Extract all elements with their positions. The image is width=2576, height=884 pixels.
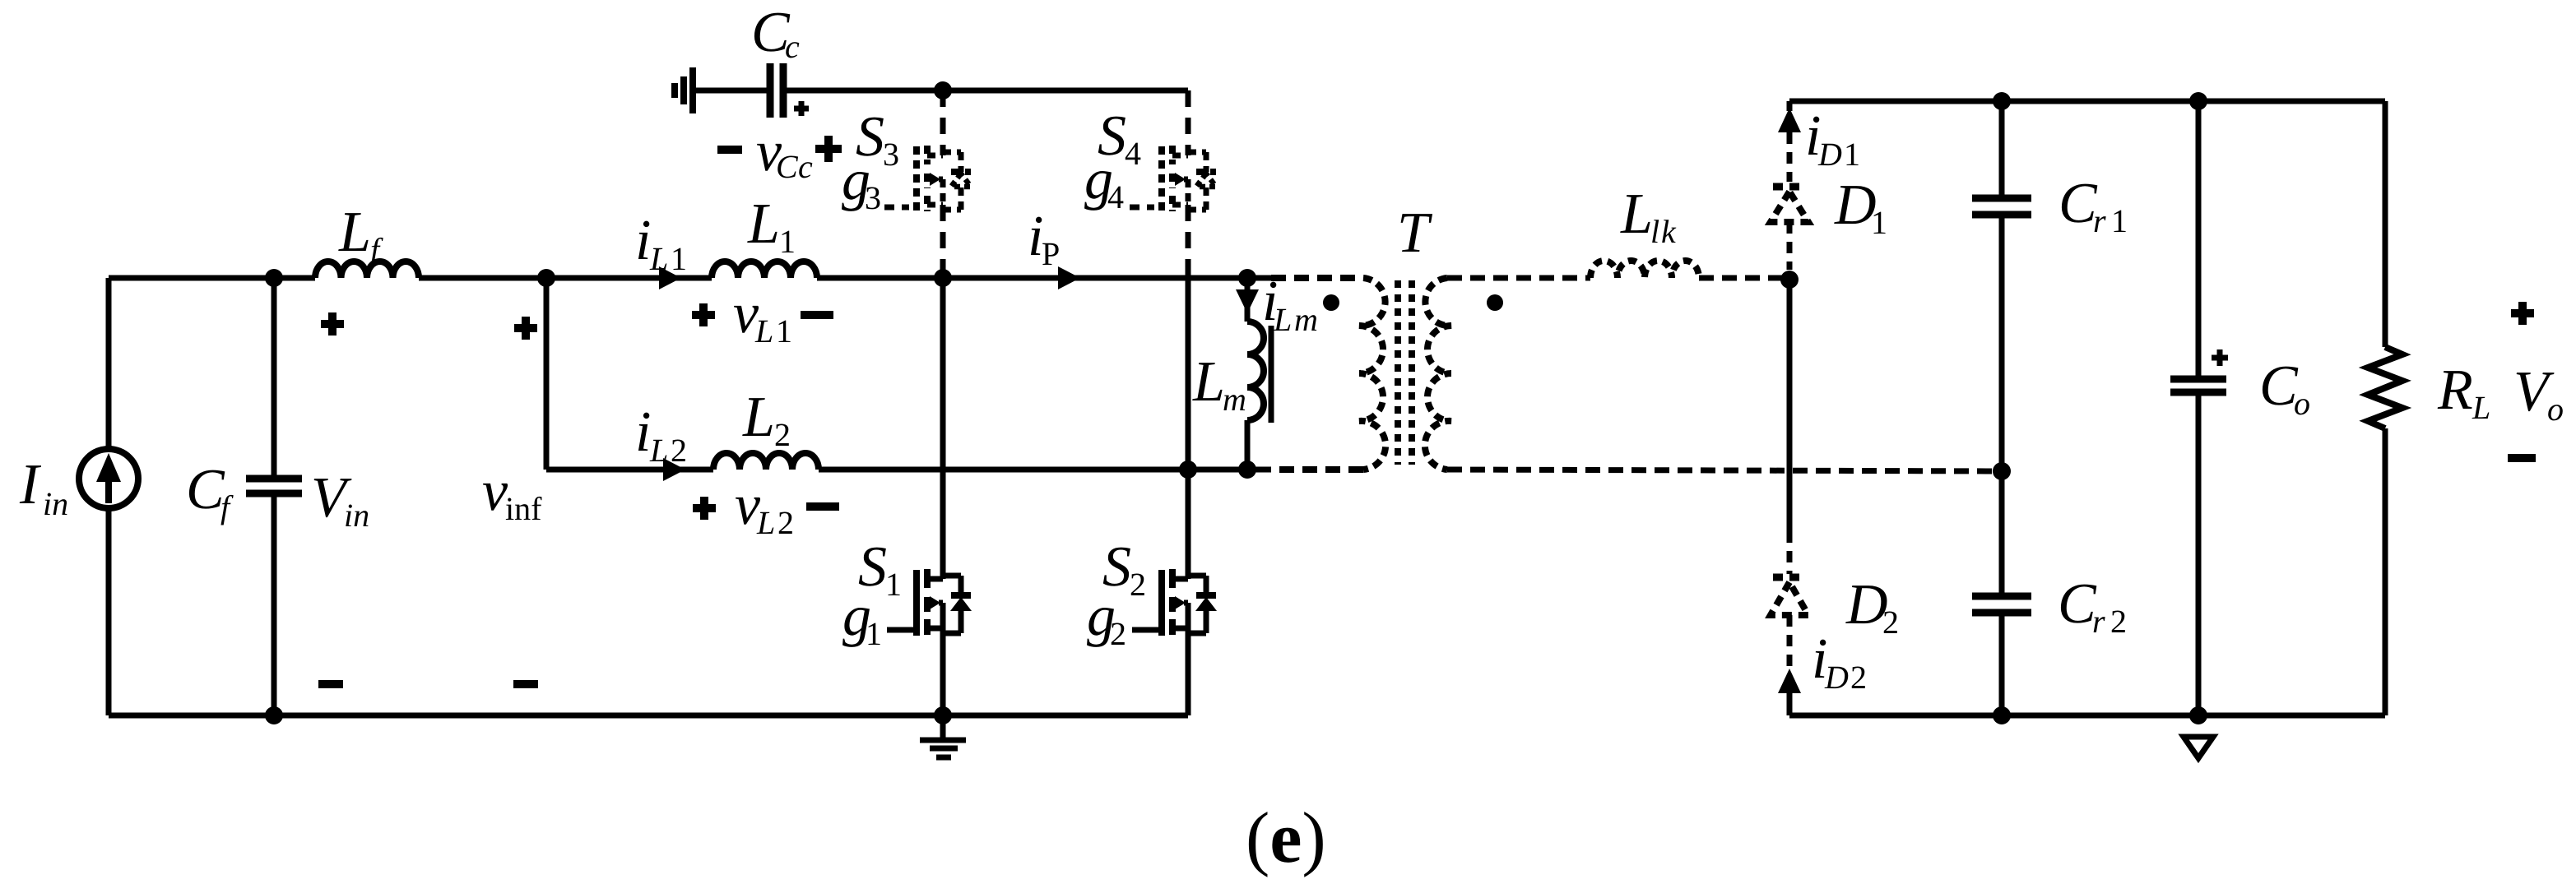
node: row1/Lm junction [1238, 269, 1256, 287]
label v_inf [482, 460, 542, 527]
svg-text:C: C [776, 148, 799, 185]
svg-text:L: L [649, 240, 668, 277]
svg-text:r: r [2093, 202, 2106, 239]
wire: bottom rail left [109, 713, 1188, 719]
node: row2/S2 junction [1179, 461, 1197, 479]
svg-text:(e): (e) [1246, 798, 1326, 878]
node vinf junction [537, 269, 555, 287]
svg-text:I: I [19, 453, 42, 516]
svg-text:L: L [756, 504, 775, 541]
svg-text:R: R [2437, 359, 2473, 422]
wire: D column dashed to D2 [1787, 531, 1793, 574]
node: top rail / Co [2189, 92, 2207, 110]
svg-text:r: r [2092, 603, 2105, 640]
svg-text:m: m [1294, 301, 1318, 338]
current arrow i_D2 [1778, 627, 1867, 715]
svg-text:L: L [747, 192, 780, 256]
svg-text:1: 1 [885, 566, 902, 603]
capacitor C_o [2170, 101, 2310, 715]
label T [1397, 201, 1433, 265]
svg-text:in: in [43, 485, 68, 522]
svg-text:3: 3 [865, 179, 881, 216]
svg-text:L: L [2472, 389, 2490, 426]
svg-text:D: D [1845, 573, 1888, 636]
current arrow i_L1 [635, 209, 687, 289]
wire: S1 source to bottom [940, 628, 946, 715]
inductor L2 [713, 386, 819, 470]
node: top rail / Cr1 [1993, 92, 2011, 110]
capacitor C_f [186, 278, 302, 724]
transistor S3 [856, 105, 971, 212]
polarity - (Vin bottom) [318, 680, 343, 688]
svg-text:c: c [785, 28, 800, 65]
svg-text:c: c [798, 148, 813, 185]
svg-text:4: 4 [1107, 178, 1124, 215]
capacitor C_r1 [1972, 101, 2128, 593]
svg-text:L: L [649, 432, 668, 469]
label g4 [1084, 148, 1154, 215]
svg-text:3: 3 [883, 136, 899, 173]
label g2 [1087, 585, 1162, 652]
inductor L1 [712, 192, 817, 278]
svg-text:1: 1 [2111, 202, 2128, 239]
svg-text:1: 1 [1871, 204, 1887, 241]
svg-text:2: 2 [1850, 659, 1867, 696]
node: bottom/ground junction [934, 706, 952, 724]
svg-text:f: f [220, 488, 234, 525]
svg-text:D: D [1834, 174, 1877, 237]
wire: secondary bottom (dashed) [1447, 470, 2002, 471]
label - v_Cc + [717, 120, 842, 185]
svg-text:k: k [1661, 213, 1677, 250]
wire: S4 drain (dashed) [1186, 90, 1191, 155]
wire: S1 drain vertical [940, 278, 946, 579]
svg-text:D: D [1817, 136, 1842, 173]
svg-text:L: L [754, 312, 773, 349]
transistor S2 [1102, 535, 1217, 636]
svg-text:o: o [2294, 385, 2310, 422]
wire: S3 drain (dashed) [940, 90, 946, 155]
wire: S2/S4 column solid [1186, 271, 1191, 579]
current arrow i_D1 [1778, 101, 1860, 182]
current arrow i_L2 [635, 400, 687, 481]
wire: secondary top (dashed) [1447, 275, 1590, 281]
node: Cc/S3 junction [934, 81, 952, 100]
label g3 [842, 149, 909, 216]
polarity + v_L1 - [692, 282, 833, 349]
svg-text:P: P [1042, 235, 1060, 272]
svg-text:i: i [635, 400, 651, 464]
svg-text:L: L [742, 386, 775, 449]
polarity + (Vin top) [321, 312, 344, 336]
svg-text:o: o [2547, 391, 2564, 428]
svg-text:2: 2 [2110, 603, 2127, 640]
svg-text:T: T [1397, 201, 1433, 265]
ground (bottom middle) [920, 715, 966, 757]
svg-text:1: 1 [866, 615, 882, 652]
svg-text:L: L [1620, 183, 1653, 246]
wire: bottom rail right [1789, 713, 2385, 719]
svg-text:1: 1 [779, 223, 796, 260]
label V_o + - [2508, 302, 2564, 458]
svg-text:L: L [1273, 301, 1292, 338]
svg-text:4: 4 [1125, 135, 1141, 172]
svg-text:1: 1 [671, 240, 687, 277]
label V_in [311, 466, 369, 534]
node: bottom rail / Cr2 [1993, 706, 2011, 724]
current source I_in [19, 278, 138, 715]
svg-text:m: m [1223, 381, 1246, 418]
capacitor C_r2 [1972, 572, 2127, 715]
svg-text:i: i [635, 209, 651, 272]
svg-text:2: 2 [774, 416, 791, 453]
ground (output) [2184, 737, 2213, 758]
current arrow i_P [1028, 205, 1080, 289]
polarity dot secondary [1487, 294, 1503, 311]
wire: top rail right [1789, 99, 2385, 104]
wire: ground to Cc [693, 88, 768, 94]
node: Llk/D1 junction [1780, 271, 1799, 289]
wire: D column solid [1787, 280, 1793, 531]
svg-text:inf: inf [505, 490, 542, 527]
transformer T secondary winding (dashed) [1425, 278, 1451, 470]
inductor L_m [1192, 322, 1271, 470]
node: bottom rail / Co [2189, 706, 2207, 724]
wire: S3 source to row1 (dashed) [940, 205, 946, 278]
svg-text:L: L [338, 201, 371, 264]
transformer T core (dashed lines) [1398, 280, 1412, 465]
polarity dot primary [1323, 294, 1339, 311]
wire: vinf branch vertical [544, 278, 550, 470]
diode D2 (dashed) [1771, 573, 1899, 668]
transistor S1 [858, 535, 972, 636]
transformer T primary winding (dashed) [1271, 278, 1385, 470]
label (e) [1246, 798, 1326, 878]
polarity + v_L2 - [693, 474, 839, 541]
wire: S2 source to bottom [1186, 628, 1191, 715]
svg-text:in: in [344, 497, 369, 534]
svg-text:2: 2 [1130, 566, 1146, 603]
capacitor C_c [751, 1, 809, 118]
svg-text:2: 2 [1882, 604, 1899, 641]
wire: row2 horizontal [546, 467, 1271, 473]
inductor L_f [315, 201, 419, 278]
svg-text:C: C [2058, 172, 2098, 235]
node: row1/Cf junction [265, 269, 283, 287]
current arrow i_Lm [1236, 270, 1318, 338]
svg-text:l: l [1650, 213, 1659, 250]
node: row2/Lm junction [1238, 461, 1256, 479]
node: row1/S column junction [934, 269, 952, 287]
wire: S4 source down (dashed) [1186, 205, 1191, 271]
resistor R_L [2368, 101, 2490, 715]
ground (Cc left) [675, 67, 693, 113]
label g1 [842, 585, 917, 652]
svg-text:C: C [2259, 354, 2299, 418]
transistor S4 [1098, 104, 1216, 212]
polarity - (vinf bottom) [513, 680, 538, 688]
inductor L_lk (dashed) [1590, 183, 1699, 278]
svg-text:1: 1 [776, 312, 792, 349]
wire: Cc to S4 top [787, 88, 1188, 94]
svg-text:L: L [1192, 350, 1225, 414]
svg-text:2: 2 [777, 504, 794, 541]
diode D1 (dashed) [1771, 174, 1887, 270]
wire: row1 main horizontal [109, 275, 1283, 281]
node: secondary bottom / Cr junction [1993, 462, 2011, 480]
svg-text:2: 2 [671, 432, 687, 469]
svg-text:D: D [1824, 659, 1849, 696]
polarity + (vinf top) [514, 317, 537, 340]
wire: Llk to D junction (dashed) [1699, 275, 1789, 281]
svg-text:C: C [2058, 572, 2097, 636]
svg-text:1: 1 [1844, 136, 1860, 173]
svg-text:C: C [186, 458, 225, 521]
svg-text:2: 2 [1110, 615, 1126, 652]
